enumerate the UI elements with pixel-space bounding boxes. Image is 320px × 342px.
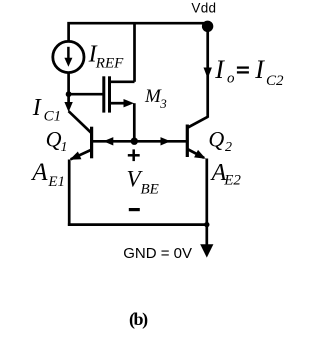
label Vdd xyxy=(191,0,216,15)
wire: node C to ground arrow xyxy=(205,225,208,246)
svg-text:Q: Q xyxy=(208,127,224,152)
label (b) xyxy=(129,309,148,330)
svg-text:I: I xyxy=(214,55,225,84)
wire: node A down to Q1 collector with I_C1 arrowhead xyxy=(64,94,72,112)
svg-text:C1: C1 xyxy=(44,109,62,125)
wire: node B to Q2 base with arrowhead xyxy=(134,137,187,145)
svg-text:Q: Q xyxy=(46,127,62,152)
label plus V_BE xyxy=(128,149,140,161)
transistor Q2 xyxy=(187,117,207,159)
label Q1 xyxy=(46,127,68,155)
label GND = 0V xyxy=(123,245,192,262)
current source I_REF xyxy=(53,41,84,72)
mosfet M3 xyxy=(69,76,135,112)
node B junction xyxy=(131,138,138,145)
svg-text:I: I xyxy=(32,95,42,121)
transistor Q1 xyxy=(69,111,135,160)
wire: Vdd node to Q2 collector with I_o arrowhead xyxy=(204,28,212,118)
svg-text:I: I xyxy=(254,55,265,84)
label I_REF xyxy=(88,42,125,72)
wire: bottom rail xyxy=(68,223,207,226)
label A_E2 xyxy=(210,160,242,188)
svg-text:Vdd: Vdd xyxy=(191,0,216,15)
wire: current source to node A xyxy=(67,73,70,95)
ground arrow xyxy=(200,244,213,257)
label I_C1 xyxy=(32,95,61,124)
svg-text:E2: E2 xyxy=(223,173,241,189)
svg-text:GND = 0V: GND = 0V xyxy=(123,245,192,262)
wire: Q2 emitter to bottom rail xyxy=(205,159,208,225)
label Q2 xyxy=(208,127,232,155)
svg-text:3: 3 xyxy=(159,96,167,111)
label minus V_BE xyxy=(129,208,140,211)
svg-text:C2: C2 xyxy=(266,73,284,89)
label M3 xyxy=(144,86,167,111)
wire: Q1 emitter to bottom rail xyxy=(68,160,71,226)
node Vdd xyxy=(202,21,213,32)
svg-text:1: 1 xyxy=(61,140,68,155)
wire: M3 drain to top rail xyxy=(133,23,136,82)
svg-text:o: o xyxy=(227,71,235,87)
svg-text:(b): (b) xyxy=(129,309,148,330)
wire: Vdd top rail xyxy=(69,23,208,41)
wire: M3 source to node B xyxy=(133,103,136,141)
label A_E1 xyxy=(30,159,65,190)
svg-text:A: A xyxy=(30,159,48,186)
node A junction xyxy=(66,91,72,97)
node C junction xyxy=(204,222,209,227)
svg-text:E1: E1 xyxy=(47,174,65,190)
svg-text:2: 2 xyxy=(225,140,232,155)
svg-text:REF: REF xyxy=(95,55,124,71)
svg-text:BE: BE xyxy=(141,182,159,198)
label Io = IC2 xyxy=(214,55,284,89)
label V_BE xyxy=(127,167,159,198)
